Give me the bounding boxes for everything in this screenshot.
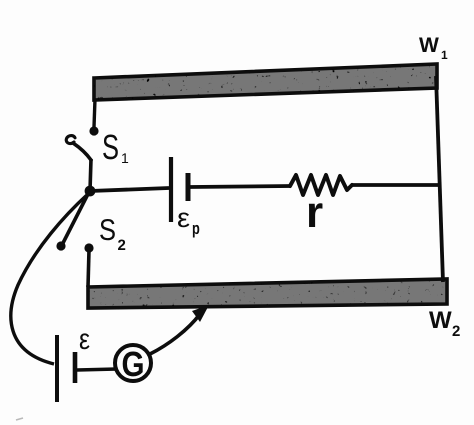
wire: S2 contact down to W2 — [88, 250, 89, 287]
wire: resistor to right vertical — [352, 183, 441, 187]
switch S1 contact dot — [89, 126, 98, 135]
potentiometer wire W2 (bottom gray bar) — [88, 279, 447, 308]
switch S2 blade (open) from junction — [63, 194, 88, 243]
potentiometer wire W1 (top gray bar) — [94, 64, 437, 100]
wire: W1 down to switch S1 contact — [94, 99, 95, 127]
cell ε long plate — [55, 335, 59, 402]
label W2 — [429, 311, 452, 328]
cell ε short plate — [73, 352, 78, 383]
label S2 — [100, 219, 115, 240]
label S1 — [103, 135, 118, 160]
jockey arrowhead — [192, 305, 209, 322]
battery εp short plate — [186, 173, 191, 201]
wire: right vertical joining W1 and W2 — [436, 76, 443, 282]
label εp — [178, 212, 189, 227]
wire: battery to resistor — [190, 186, 291, 187]
wire: cell to galvanometer — [77, 369, 117, 370]
node: main junction — [85, 186, 96, 197]
battery εp long plate — [169, 157, 173, 222]
label r — [309, 203, 323, 227]
switch S2 contact dot — [84, 243, 93, 252]
switch S1 blade (open) with hook end — [73, 143, 91, 160]
galvanometer G — [115, 345, 151, 381]
switch S2 blade end dot — [56, 241, 65, 250]
resistor r — [290, 175, 352, 195]
faint stray mark — [16, 418, 23, 420]
wire: jockey arrow shaft from galvanometer to W2 — [150, 314, 200, 354]
label ε — [80, 333, 90, 349]
wire: S1 blade pivot down to junction — [90, 159, 91, 191]
label W1 — [419, 38, 439, 52]
wire: curved lead from junction to cell ε — [11, 194, 88, 364]
wire: junction to battery plate (middle branch) — [90, 188, 169, 191]
